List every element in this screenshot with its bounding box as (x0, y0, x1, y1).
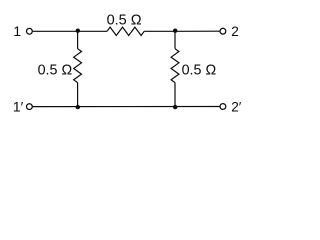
wire: R3 down to node D (174, 83, 176, 107)
node D (junction dot, bottom right) (173, 105, 177, 109)
node A (junction dot, top left) (76, 29, 80, 33)
svg-text:1: 1 (13, 24, 21, 40)
wire: node A down to R2 (77, 31, 79, 48)
terminal 1 (open circle) (27, 28, 33, 34)
wire: R2 down to node C (77, 83, 79, 107)
node B (junction dot, top right) (173, 29, 177, 33)
wire: R1 to node B (144, 30, 175, 32)
svg-text:1′: 1′ (13, 99, 24, 115)
wire: node B to terminal 2 (175, 30, 220, 32)
terminal 1' (open circle) (27, 104, 33, 110)
svg-text:2′: 2′ (231, 99, 242, 114)
node C (junction dot, bottom left) (76, 105, 80, 109)
svg-text:0.5 Ω: 0.5 Ω (107, 13, 142, 29)
wire: terminal 1 to node A (33, 30, 107, 32)
terminal 2 (open circle) (220, 28, 226, 34)
svg-text:0.5 Ω: 0.5 Ω (182, 62, 217, 78)
wire: terminal 1' to terminal 2' (bottom rail) (33, 106, 220, 108)
resistor R3 0.5 ohm (right shunt) (171, 49, 179, 83)
terminal 2' (open circle) (220, 104, 226, 110)
resistor R1 0.5 ohm (series, top) (107, 27, 144, 35)
svg-text:2: 2 (231, 24, 239, 39)
wire: node B down to R3 (174, 31, 176, 48)
svg-text:0.5 Ω: 0.5 Ω (38, 62, 73, 78)
resistor R2 0.5 ohm (left shunt) (74, 49, 82, 83)
